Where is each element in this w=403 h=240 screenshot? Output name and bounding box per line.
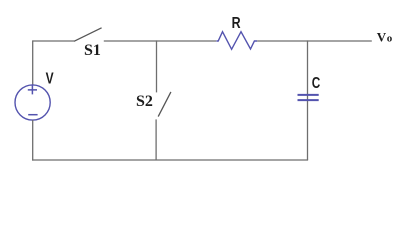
wire: top-left horizontal from source corner to switch S1 (33, 40, 74, 42)
svg-text:S1: S1 (84, 42, 101, 59)
capacitor C bottom plate (298, 99, 319, 101)
svg-text:R: R (232, 15, 241, 32)
wire: S1 to resistor (through S2 junction) (104, 40, 216, 42)
svg-text:S2: S2 (136, 93, 153, 110)
wire: source bottom lead (left vertical lower) (32, 120, 34, 161)
wire: bottom horizontal (32, 159, 308, 161)
wire: S2 branch lower vertical (155, 119, 157, 160)
svg-text:V: V (46, 71, 54, 88)
wire: S2 branch upper vertical (156, 40, 158, 92)
voltage source minus sign (28, 114, 37, 116)
wire: source top lead (left vertical upper) (32, 40, 34, 85)
resistor R (216, 32, 257, 50)
wire: resistor to output Vo (through capacitor junction) (257, 40, 372, 42)
voltage source plus sign (28, 85, 37, 94)
switch S2 blade (158, 92, 171, 117)
wire: capacitor branch vertical (307, 40, 309, 160)
capacitor C top plate (298, 94, 319, 96)
switch S1 blade (74, 28, 102, 42)
svg-text:C: C (312, 75, 321, 92)
svg-text:Vo: Vo (377, 30, 393, 45)
voltage source V circle (15, 85, 50, 120)
